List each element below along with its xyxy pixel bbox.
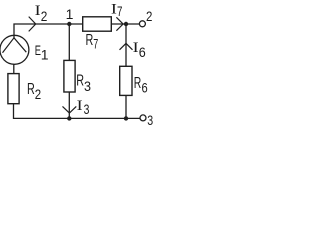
label R3 xyxy=(76,73,91,94)
junction top-right xyxy=(124,22,128,26)
svg-text:7: 7 xyxy=(93,35,98,51)
junction bottom-middle xyxy=(67,116,71,120)
svg-text:3: 3 xyxy=(84,101,90,117)
terminal node 2 xyxy=(139,21,145,27)
svg-text:2: 2 xyxy=(146,8,153,24)
svg-text:6: 6 xyxy=(139,44,146,60)
svg-text:3: 3 xyxy=(84,78,91,94)
arrow I7 xyxy=(116,17,123,30)
arrow I2 on top wire xyxy=(29,17,36,32)
terminal node 3 xyxy=(140,115,146,121)
svg-text:I: I xyxy=(77,98,83,114)
wire junction top-right down to R6 xyxy=(125,24,127,66)
junction node 1 xyxy=(67,22,71,26)
svg-text:R: R xyxy=(27,81,35,98)
svg-text:R: R xyxy=(134,75,142,92)
svg-text:2: 2 xyxy=(41,8,48,24)
label R6 xyxy=(134,75,148,95)
svg-text:7: 7 xyxy=(117,3,123,19)
wire from R7 to junction node 2 branch xyxy=(111,23,139,25)
arrow inside E1 xyxy=(3,38,27,53)
label E1 xyxy=(35,42,49,63)
wire R6 bottom to bottom rail xyxy=(125,95,127,118)
label 2 xyxy=(146,8,153,24)
svg-text:R: R xyxy=(76,73,84,90)
source E1 xyxy=(0,35,29,64)
label I3 xyxy=(77,98,90,117)
label I2 xyxy=(35,3,48,24)
label 3 xyxy=(147,112,153,128)
junction bottom-right xyxy=(124,116,128,120)
label R2 xyxy=(27,81,41,102)
label I7 xyxy=(111,1,123,19)
resistor R7 xyxy=(83,17,112,31)
wire R2 bottom to bottom rail xyxy=(14,104,140,119)
arrow I6 xyxy=(120,43,133,49)
wire R3 bottom to bottom rail xyxy=(68,92,70,118)
label R7 xyxy=(86,32,99,51)
svg-text:2: 2 xyxy=(35,86,42,102)
wire E1 bottom to R2 xyxy=(13,64,15,73)
svg-text:I: I xyxy=(35,3,41,19)
svg-text:3: 3 xyxy=(147,112,153,128)
label I6 xyxy=(133,40,146,60)
svg-text:1: 1 xyxy=(41,47,49,63)
svg-text:R: R xyxy=(86,32,94,49)
resistor R2 xyxy=(8,74,19,104)
resistor R3 xyxy=(64,60,75,92)
resistor R6 xyxy=(120,66,132,95)
svg-text:I: I xyxy=(111,1,117,17)
wire top-left from E1 top to node 1 xyxy=(14,24,83,38)
svg-text:6: 6 xyxy=(142,79,148,95)
svg-text:1: 1 xyxy=(66,6,74,22)
label 1 xyxy=(66,6,74,22)
wire node 1 down to R3 xyxy=(68,24,70,60)
arrow I3 xyxy=(63,106,77,113)
